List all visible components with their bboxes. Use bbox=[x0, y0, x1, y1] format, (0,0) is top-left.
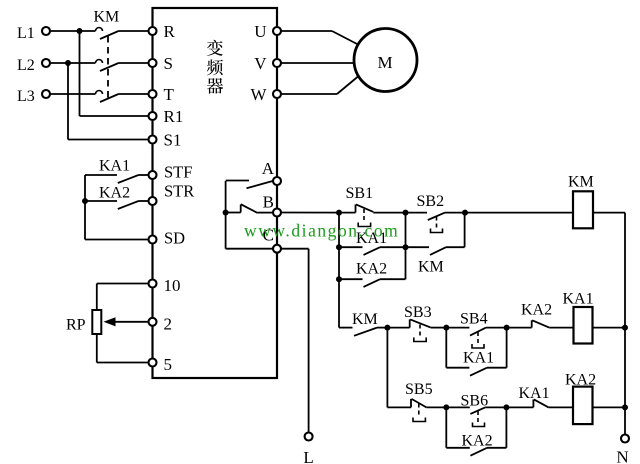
svg-text:KA1: KA1 bbox=[99, 157, 130, 174]
wire bbox=[118, 175, 139, 183]
svg-text:T: T bbox=[164, 85, 175, 104]
wire mid bus bbox=[405, 213, 407, 280]
wire L2 to S1 bbox=[67, 63, 69, 140]
wire bbox=[409, 319, 411, 327]
wire RP bottom bbox=[96, 334, 98, 363]
terminal bbox=[42, 90, 50, 98]
svg-text:V: V bbox=[254, 54, 267, 73]
terminal bbox=[149, 236, 157, 244]
svg-text:S1: S1 bbox=[164, 130, 182, 149]
wire bbox=[118, 201, 139, 209]
wire bbox=[247, 181, 273, 188]
svg-text:KA1: KA1 bbox=[563, 291, 594, 308]
wire bbox=[226, 212, 241, 214]
SB2 button cap bbox=[431, 229, 443, 233]
wire bbox=[68, 139, 149, 141]
node L2 junction bbox=[65, 60, 71, 66]
node rung3 a bbox=[443, 404, 449, 410]
wire bbox=[387, 406, 411, 408]
inverter box 变频器 bbox=[153, 8, 278, 378]
wire bbox=[387, 327, 409, 329]
wire bbox=[139, 174, 149, 176]
node rung2 b bbox=[443, 325, 449, 331]
svg-text:L1: L1 bbox=[17, 25, 35, 42]
svg-text:10: 10 bbox=[164, 276, 181, 295]
SB3 button cap bbox=[414, 338, 426, 342]
node Y bbox=[462, 210, 468, 216]
KM linkage dashed line bbox=[107, 36, 109, 99]
wire bbox=[258, 212, 273, 214]
wire bbox=[356, 204, 373, 212]
terminal bbox=[149, 59, 157, 67]
node N bus rung3 bbox=[622, 404, 628, 410]
inverter label char 2 bbox=[207, 59, 223, 75]
wire bbox=[531, 320, 533, 327]
svg-text:www.diangon.com: www.diangon.com bbox=[244, 221, 399, 241]
terminal bbox=[149, 136, 157, 144]
svg-text:A: A bbox=[262, 159, 275, 178]
terminal bbox=[149, 171, 157, 179]
wire bbox=[486, 327, 507, 329]
svg-text:L2: L2 bbox=[17, 57, 35, 74]
wire left bus bbox=[338, 213, 340, 328]
wire bbox=[532, 320, 549, 327]
wire L1 to KM contact bbox=[50, 30, 96, 32]
inverter label char 1 bbox=[207, 40, 223, 56]
node STR branch bbox=[82, 198, 88, 204]
terminal bbox=[149, 280, 157, 288]
terminal bbox=[149, 90, 157, 98]
wire bbox=[426, 406, 446, 408]
wire bbox=[114, 321, 149, 323]
wire bbox=[506, 406, 533, 408]
wire bbox=[593, 212, 625, 214]
wire bbox=[506, 328, 508, 368]
terminal bbox=[273, 59, 281, 67]
svg-text:SB3: SB3 bbox=[404, 304, 432, 321]
wire bbox=[240, 205, 242, 213]
svg-text:RP: RP bbox=[66, 317, 86, 334]
wire bbox=[226, 180, 249, 182]
SB6 actuator bbox=[477, 411, 479, 422]
wire bbox=[446, 327, 469, 329]
terminal bbox=[273, 27, 281, 35]
wire bbox=[373, 212, 405, 214]
wire bbox=[241, 204, 258, 213]
svg-text:SD: SD bbox=[164, 229, 185, 248]
wire bbox=[96, 60, 103, 64]
svg-text:KM: KM bbox=[94, 9, 120, 26]
wire KA1/KA2 common bus bbox=[84, 175, 86, 240]
wire bbox=[85, 200, 117, 202]
SB5 button cap bbox=[413, 418, 425, 422]
wire bbox=[354, 328, 377, 336]
inverter label char 3 bbox=[207, 78, 223, 94]
SB2 actuator bbox=[436, 217, 438, 229]
wire bbox=[445, 328, 447, 368]
wire bbox=[534, 399, 549, 407]
wire bbox=[339, 327, 353, 329]
coil KA2 bbox=[573, 387, 593, 425]
terminal bbox=[149, 359, 157, 367]
wire bbox=[487, 447, 506, 449]
node X bbox=[403, 210, 409, 216]
svg-text:R: R bbox=[164, 22, 176, 41]
svg-text:KM: KM bbox=[568, 174, 594, 191]
node KA1 row right bbox=[403, 244, 409, 250]
svg-text:SB1: SB1 bbox=[346, 185, 374, 202]
wire bbox=[446, 406, 470, 408]
wire bbox=[332, 31, 358, 45]
wire 10 to RP bbox=[97, 283, 149, 285]
terminal bbox=[149, 197, 157, 205]
wire bbox=[464, 213, 466, 248]
wire bbox=[430, 247, 446, 255]
svg-text:SB4: SB4 bbox=[460, 311, 488, 328]
wire bbox=[487, 367, 507, 369]
wire bbox=[380, 246, 406, 248]
svg-text:KA2: KA2 bbox=[99, 185, 130, 202]
svg-text:5: 5 bbox=[164, 355, 173, 374]
wire bbox=[532, 399, 534, 407]
wire bbox=[226, 248, 273, 250]
node KA1 row left bbox=[336, 244, 342, 250]
svg-text:S: S bbox=[164, 54, 173, 73]
wire bbox=[446, 246, 465, 248]
svg-text:KM: KM bbox=[352, 311, 378, 328]
wire to SD bbox=[85, 239, 149, 241]
wire bbox=[281, 62, 355, 64]
wire bbox=[96, 28, 103, 31]
svg-text:L: L bbox=[303, 448, 313, 464]
terminal bbox=[273, 90, 281, 98]
terminal bbox=[42, 59, 50, 67]
terminal bbox=[621, 435, 629, 443]
wire bbox=[281, 30, 332, 32]
wire bbox=[406, 212, 428, 214]
wire bbox=[446, 367, 469, 369]
svg-text:KA2: KA2 bbox=[521, 302, 552, 319]
wire bbox=[470, 328, 486, 336]
svg-text:KA2: KA2 bbox=[356, 261, 387, 278]
wire bbox=[470, 448, 487, 456]
wire bbox=[281, 248, 309, 250]
node N bus rung2 bbox=[622, 325, 628, 331]
wire bbox=[139, 200, 149, 202]
wire bbox=[386, 328, 388, 408]
terminal bbox=[273, 177, 281, 185]
wire bbox=[377, 327, 387, 329]
wire bbox=[505, 407, 507, 447]
svg-text:SB5: SB5 bbox=[405, 381, 433, 398]
wire bbox=[470, 368, 487, 376]
SB4 button cap bbox=[472, 344, 484, 348]
terminal bbox=[149, 27, 157, 35]
SB6 button cap bbox=[473, 423, 485, 427]
wire bbox=[593, 327, 626, 329]
svg-text:STF: STF bbox=[164, 162, 192, 181]
svg-text:2: 2 bbox=[164, 314, 173, 333]
SB5 actuator bbox=[418, 404, 420, 418]
svg-text:B: B bbox=[263, 193, 274, 212]
svg-text:L3: L3 bbox=[17, 88, 35, 105]
wire bbox=[410, 319, 431, 327]
wire bbox=[96, 91, 103, 95]
svg-text:KA1: KA1 bbox=[463, 350, 494, 367]
wire bbox=[431, 327, 447, 329]
svg-text:M: M bbox=[377, 53, 392, 72]
terminal bbox=[149, 112, 157, 120]
wire bbox=[412, 399, 427, 408]
terminal bbox=[305, 433, 313, 441]
svg-text:R1: R1 bbox=[164, 107, 184, 126]
wire bbox=[465, 212, 573, 214]
terminal bbox=[273, 245, 281, 253]
motor M bbox=[354, 29, 417, 92]
wire bbox=[281, 93, 337, 95]
coil KM bbox=[573, 191, 593, 228]
wire RP top bbox=[96, 284, 98, 311]
wire bbox=[80, 115, 149, 117]
wire bbox=[308, 249, 310, 433]
wire bbox=[339, 278, 363, 280]
SB1 button cap bbox=[358, 223, 370, 227]
wire bbox=[337, 77, 358, 95]
wire bbox=[355, 204, 357, 212]
wire bbox=[593, 406, 626, 408]
wire bbox=[549, 406, 573, 408]
svg-text:W: W bbox=[250, 85, 267, 104]
SB1 actuator bbox=[363, 209, 365, 222]
wire 5 to RP bbox=[97, 362, 149, 364]
wire bbox=[380, 278, 406, 280]
node B branch bbox=[223, 210, 229, 216]
node rung2 c bbox=[504, 325, 510, 331]
wire bbox=[428, 213, 445, 220]
wire bbox=[364, 247, 381, 255]
svg-text:KM: KM bbox=[418, 259, 444, 276]
wire bbox=[446, 447, 470, 449]
wire A/B/C common bus bbox=[225, 181, 227, 249]
wire bbox=[507, 327, 532, 329]
wire bbox=[549, 327, 573, 329]
wire bbox=[485, 406, 506, 408]
node rung3 b bbox=[503, 404, 509, 410]
SB4 actuator bbox=[477, 332, 479, 344]
wire L3 to KM contact bbox=[50, 93, 96, 95]
wire bbox=[85, 174, 117, 176]
node main row left bbox=[336, 210, 342, 216]
potentiometer RP bbox=[92, 310, 101, 334]
SB3 actuator bbox=[419, 325, 421, 338]
svg-text:KA2: KA2 bbox=[462, 433, 493, 450]
node L1 junction bbox=[77, 28, 83, 34]
node KA2 row left bbox=[336, 276, 342, 282]
wire bbox=[445, 407, 447, 447]
terminal bbox=[42, 27, 50, 35]
wire bbox=[339, 246, 363, 248]
terminal bbox=[273, 209, 281, 217]
wire bbox=[364, 279, 381, 287]
wire bbox=[406, 246, 430, 248]
wire bbox=[624, 213, 626, 435]
svg-text:N: N bbox=[616, 448, 628, 464]
node rung2 a bbox=[384, 325, 390, 331]
terminal bbox=[149, 318, 157, 326]
wire L1 to R1 bbox=[79, 31, 81, 116]
wire bbox=[470, 407, 485, 414]
svg-text:STR: STR bbox=[164, 181, 194, 200]
wire bbox=[410, 399, 412, 408]
svg-text:SB2: SB2 bbox=[417, 193, 445, 210]
wire bbox=[445, 212, 465, 214]
wire L2 to KM contact bbox=[50, 62, 96, 64]
coil KA1 bbox=[574, 307, 593, 344]
svg-text:U: U bbox=[254, 22, 266, 41]
wire bbox=[281, 212, 356, 214]
